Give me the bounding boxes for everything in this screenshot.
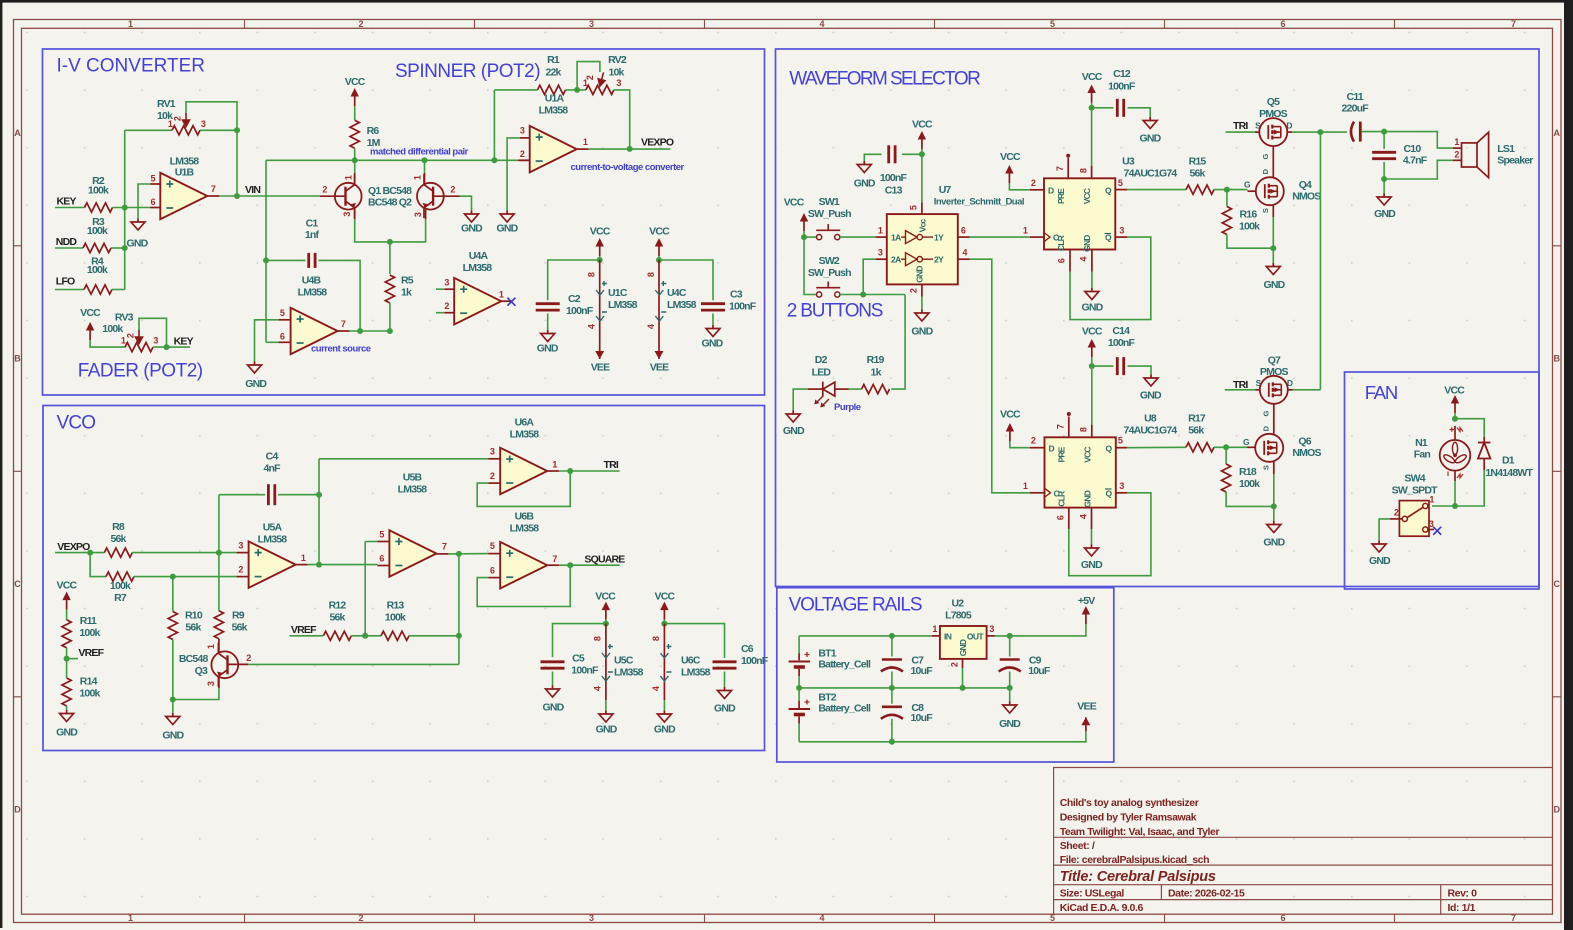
svg-text:KEY: KEY: [174, 335, 194, 347]
capacitor C14: [1116, 357, 1119, 375]
svg-text:1Y: 1Y: [934, 233, 944, 243]
wire U4A stubs: [436, 288, 444, 290]
svg-text:VOLTAGE RAILS: VOLTAGE RAILS: [789, 595, 922, 616]
svg-text:GND: GND: [543, 702, 565, 714]
junction C10: [1381, 129, 1387, 135]
op-amp U1A: [530, 126, 577, 173]
power VCC C5 rail: [602, 602, 610, 620]
svg-text:SW_Push: SW_Push: [808, 208, 851, 220]
wire to C3: [659, 260, 713, 300]
svg-text:C11: C11: [1347, 91, 1364, 103]
transistor Q1: [335, 183, 362, 210]
op-amp power unit U5C: [605, 624, 607, 700]
svg-text:6: 6: [1280, 19, 1285, 29]
svg-text:KiCad E.D.A. 9.0.6: KiCad E.D.A. 9.0.6: [1060, 902, 1144, 914]
wire VREF R12: [290, 635, 324, 637]
svg-text:LM358: LM358: [510, 429, 540, 441]
junction C13: [919, 151, 925, 157]
IC U7 Inverter_Schmitt_Dual: [887, 214, 958, 284]
svg-text:VCC: VCC: [590, 226, 611, 238]
svg-text:VEXPO: VEXPO: [57, 541, 90, 553]
junction U4C rail: [656, 257, 662, 263]
wire R8 to pin3: [132, 552, 236, 554]
wire VEXPO in: [55, 552, 104, 554]
junction Q4 source/R16: [1270, 245, 1276, 251]
svg-text:100nF: 100nF: [741, 655, 769, 667]
svg-text:LM358: LM358: [539, 105, 569, 117]
capacitor C13: [887, 145, 890, 163]
no-connect X U4A output: [507, 298, 515, 306]
wire C10 to speaker pin2: [1384, 160, 1453, 179]
junction fan bottom: [1452, 503, 1458, 509]
junction VEXPO feedback: [627, 146, 633, 152]
svg-text:D: D: [1049, 444, 1055, 454]
wire U6A output TRI: [559, 470, 620, 472]
op-amp power unit U4C: [658, 260, 660, 345]
junction KEY/R3: [122, 205, 128, 211]
svg-text:VCC: VCC: [784, 197, 805, 209]
wire R4 to junction column: [112, 289, 125, 291]
power VCC C12: [1087, 85, 1095, 103]
svg-text:D1: D1: [1502, 455, 1515, 467]
svg-text:100k: 100k: [87, 225, 108, 237]
wire TRI to Q7: [1225, 389, 1256, 391]
svg-text:LM358: LM358: [614, 667, 644, 679]
wire RV3 wiper loop: [139, 318, 167, 347]
svg-text:SW2: SW2: [819, 255, 840, 267]
svg-text:GND: GND: [714, 703, 736, 715]
junction U6B out: [567, 562, 573, 568]
svg-text:U4C: U4C: [667, 287, 687, 299]
power VCC R11: [62, 592, 70, 610]
wire emitters to R5: [389, 242, 391, 274]
wire VCC fan junction: [1454, 413, 1456, 419]
svg-text:2: 2: [358, 913, 363, 923]
junction C6 rail: [661, 621, 667, 627]
wire Q7 to Q6 drain: [1273, 404, 1275, 434]
svg-text:KEY: KEY: [57, 196, 77, 208]
wire VEXPO down to R7: [90, 553, 106, 577]
svg-text:VEE: VEE: [591, 362, 610, 374]
svg-text:SW_Push: SW_Push: [808, 267, 851, 279]
svg-text:GND: GND: [1082, 235, 1092, 252]
svg-text:current-to-voltage converter: current-to-voltage converter: [571, 162, 685, 173]
svg-text:GND: GND: [915, 266, 925, 283]
wire U1A pin2 stub: [494, 159, 518, 161]
capacitor C6: [713, 660, 737, 663]
svg-text:Designed by Tyler Ramsawak: Designed by Tyler Ramsawak: [1060, 812, 1197, 824]
wire to U6A pin3: [319, 458, 488, 460]
svg-text:100nF: 100nF: [1108, 337, 1136, 349]
svg-text:TRI: TRI: [604, 459, 619, 471]
wire Q2 collector: [424, 160, 426, 173]
wire U3 pin3 loop to pin6: [1070, 237, 1151, 320]
svg-text:LED: LED: [812, 366, 832, 378]
ground U1A pin3: [500, 211, 514, 223]
svg-text:GND: GND: [783, 425, 805, 437]
svg-text:U5C: U5C: [614, 655, 634, 667]
svg-text:GND: GND: [1263, 537, 1285, 549]
wire U1B output VIN: [219, 195, 319, 197]
wire VCC to U8 pin2: [1010, 441, 1030, 448]
transistor Q3: [218, 639, 220, 652]
svg-text:OUT: OUT: [967, 632, 985, 642]
wire U4B output: [350, 330, 390, 332]
svg-text:Q6: Q6: [1298, 436, 1311, 448]
resistor R15: [1186, 185, 1214, 194]
junction R5/output: [387, 328, 393, 334]
I-V CONVERTER section box: [43, 49, 765, 395]
resistor R19: [862, 385, 890, 394]
power VEE: [1081, 717, 1090, 731]
wire U7 pin6 to U3 pin1: [970, 236, 1030, 238]
regulator U2 L7805: [932, 635, 940, 637]
wire R9 column: [218, 553, 220, 611]
svg-text:GND: GND: [1081, 559, 1103, 571]
svg-text:D: D: [14, 805, 21, 815]
svg-text:VCC: VCC: [1000, 409, 1021, 421]
junction R1/RV2 wiper: [574, 87, 580, 93]
wire Q7 D to TRI bus: [1293, 389, 1321, 391]
junction C4 right: [316, 492, 322, 498]
svg-text:Sheet: /: Sheet: /: [1060, 840, 1095, 852]
svg-text:G: G: [1244, 180, 1251, 190]
svg-text:C1: C1: [306, 218, 319, 230]
junction R10/emitter: [170, 697, 176, 703]
svg-text:CLR: CLR: [1056, 235, 1066, 251]
resistor R5: [385, 275, 394, 303]
resistor R18: [1225, 447, 1227, 464]
svg-text:4nF: 4nF: [263, 463, 281, 475]
svg-text:LM358: LM358: [608, 299, 638, 311]
svg-text:D: D: [1554, 805, 1561, 815]
junction U6A out: [567, 468, 573, 474]
wire C14 junction to U8 pin8: [1091, 366, 1093, 425]
svg-text:RV2: RV2: [608, 54, 627, 66]
svg-text:U6B: U6B: [515, 511, 535, 523]
ground R14: [60, 710, 74, 722]
wire R18 bottom: [1226, 492, 1274, 506]
resistor R4: [84, 285, 112, 294]
svg-text:Q: Q: [1105, 488, 1112, 498]
junction C8 bottom: [889, 739, 895, 745]
resistor R16: [1226, 190, 1228, 207]
resistor R1: [538, 85, 566, 94]
wire C4 right: [278, 494, 319, 496]
svg-text:10uF: 10uF: [1028, 665, 1051, 677]
svg-text:56k: 56k: [185, 622, 201, 634]
svg-text:PRE: PRE: [1056, 188, 1066, 204]
svg-text:C6: C6: [741, 643, 754, 655]
svg-text:File: cerebralPalsipus.kicad_s: File: cerebralPalsipus.kicad_sch: [1060, 854, 1209, 866]
ground C5: [546, 686, 560, 698]
svg-text:R19: R19: [867, 354, 885, 366]
VEE arrow U4C: [655, 345, 664, 359]
svg-text:R15: R15: [1189, 156, 1207, 168]
svg-text:Size: USLegal: Size: USLegal: [1060, 888, 1125, 900]
screen edge left: [0, 0, 2, 928]
svg-text:Battery_Cell: Battery_Cell: [818, 703, 871, 715]
svg-text:TRI: TRI: [1233, 120, 1248, 132]
svg-text:74AUC1G74: 74AUC1G74: [1124, 167, 1178, 179]
wire C6 GND: [724, 672, 726, 688]
svg-text:LFO: LFO: [56, 276, 75, 288]
svg-text:VEE: VEE: [650, 362, 669, 374]
wire SW2 to U7 pin3: [863, 259, 875, 294]
svg-text:I-V CONVERTER: I-V CONVERTER: [57, 56, 206, 77]
wire U1A output VEXPO: [589, 148, 671, 150]
wire R1 feedback vertical: [493, 90, 495, 160]
ground U3: [1085, 288, 1099, 300]
svg-text:Q5: Q5: [1267, 96, 1280, 108]
capacitor C8 polarized: [891, 688, 893, 704]
wire pin5 vertical: [364, 542, 366, 636]
wire LED to GND: [793, 389, 808, 410]
svg-text:C4: C4: [266, 451, 279, 463]
wire R15 to gate node: [1214, 189, 1248, 191]
power VCC SW1: [800, 213, 808, 231]
svg-text:GND: GND: [702, 338, 724, 350]
svg-text:R5: R5: [401, 275, 414, 287]
svg-text:2: 2: [358, 19, 363, 29]
wire VCC to U3 pin2: [1009, 183, 1030, 190]
U3 pin7 no connect: [1067, 158, 1069, 178]
wire C13 right: [902, 153, 922, 155]
junction RV1 feedback: [234, 127, 240, 133]
svg-text:VCO: VCO: [57, 413, 96, 434]
svg-text:GND: GND: [958, 639, 968, 656]
svg-text:1A: 1A: [891, 233, 901, 243]
screen edge right: [1564, 0, 1573, 930]
junction RV3: [164, 344, 170, 350]
resistor R17: [1186, 443, 1214, 452]
wire VCC C5: [605, 620, 607, 624]
svg-text:100k: 100k: [87, 264, 108, 276]
svg-text:FADER (POT2): FADER (POT2): [78, 361, 203, 382]
resistor R8: [104, 548, 132, 557]
svg-text:G: G: [1243, 437, 1250, 447]
ground Q6: [1267, 521, 1281, 533]
battery BT1: [798, 636, 800, 654]
svg-text:R8: R8: [112, 521, 125, 533]
wire R1 left lead: [494, 89, 537, 91]
wire VCC C12 junction: [1091, 103, 1093, 108]
U8 pin5 stub: [1116, 447, 1127, 449]
svg-text:GND: GND: [1264, 279, 1286, 291]
svg-text:C3: C3: [730, 289, 743, 301]
wire R7 to pin2: [134, 576, 237, 578]
resistor R9: [214, 611, 223, 639]
U7 pin stubs: [876, 236, 887, 238]
svg-text:Inverter_Schmitt_Dual: Inverter_Schmitt_Dual: [934, 197, 1024, 208]
svg-text:R7: R7: [114, 592, 127, 604]
power VCC fader: [86, 322, 94, 340]
capacitor C5: [541, 660, 565, 663]
svg-text:Q4: Q4: [1299, 179, 1312, 191]
ground U7: [915, 310, 929, 322]
wire KEY input: [55, 207, 85, 209]
wire R13 right: [409, 635, 459, 637]
svg-text:100k: 100k: [88, 185, 109, 197]
svg-text:1nf: 1nf: [305, 229, 320, 241]
potentiometer RV1: [125, 129, 172, 131]
speaker LS1: [1453, 147, 1462, 149]
wire RV3 out: [153, 346, 190, 348]
svg-text:56k: 56k: [232, 622, 248, 634]
svg-text:BC548: BC548: [179, 653, 209, 665]
svg-text:4.7nF: 4.7nF: [1403, 155, 1428, 167]
wire C10 bottom: [1383, 162, 1385, 179]
svg-text:1k: 1k: [401, 287, 412, 299]
power +5V: [1082, 606, 1090, 624]
ground C13: [857, 161, 871, 173]
resistor R6: [350, 120, 359, 148]
wire to C5: [553, 624, 606, 657]
svg-text:U4B: U4B: [302, 275, 322, 287]
svg-text:C12: C12: [1113, 68, 1131, 80]
wire C11 right to speaker: [1362, 132, 1453, 149]
capacitor C2: [536, 302, 560, 305]
svg-text:6: 6: [1280, 913, 1285, 923]
svg-text:A: A: [14, 128, 21, 138]
svg-text:GND: GND: [999, 718, 1021, 730]
wire U5B output to U6B: [448, 553, 488, 555]
wire to SW4 pin1: [1432, 505, 1455, 507]
wire R6 to node: [354, 148, 356, 160]
junction VEXPO: [87, 550, 93, 556]
title block border: [1054, 768, 1553, 915]
junction R12/R13 pin5: [362, 633, 368, 639]
WAVEFORM SELECTOR section box: [776, 49, 1540, 587]
wire C12 to GND: [1128, 108, 1151, 117]
svg-text:VIN: VIN: [245, 184, 260, 196]
svg-text:U1C: U1C: [608, 287, 628, 299]
junction fan top: [1452, 416, 1458, 422]
wire U4B pin5 to GND: [255, 320, 279, 362]
junction C5 rail: [603, 621, 609, 627]
junction Q2 collector: [422, 157, 428, 163]
svg-text:BC548 Q2: BC548 Q2: [368, 197, 412, 209]
power VCC C2 rail: [596, 238, 604, 256]
capacitor C3: [701, 302, 725, 305]
capacitor C10: [1372, 151, 1396, 154]
U3 pin5 stub: [1115, 189, 1127, 191]
wire U1B pin5 to GND: [138, 184, 150, 219]
wire output feedback vertical: [458, 554, 460, 665]
wire U6A feedback: [477, 471, 570, 506]
svg-text:U5B: U5B: [403, 472, 423, 484]
svg-text:R12: R12: [329, 600, 347, 612]
junction U2 pin2: [960, 685, 966, 691]
svg-text:VCC: VCC: [1082, 188, 1092, 204]
junction R17/R18: [1223, 444, 1229, 450]
svg-text:GND: GND: [911, 326, 933, 338]
wire U8 pin5 to R17: [1127, 446, 1186, 448]
junction R10 top: [170, 574, 176, 580]
svg-text:220uF: 220uF: [1342, 103, 1370, 115]
svg-text:U6A: U6A: [515, 417, 535, 429]
op-amp U4A: [454, 278, 501, 325]
wire to C6: [664, 624, 724, 658]
svg-text:100k: 100k: [385, 612, 406, 624]
svg-text:56k: 56k: [1189, 167, 1205, 179]
svg-text:U7: U7: [939, 184, 952, 196]
wire VCC C6: [663, 620, 665, 624]
VCO section box: [43, 406, 765, 751]
wire R17 to gate node: [1214, 446, 1247, 448]
power VCC U3 pin2: [1005, 165, 1013, 183]
svg-text:Q1 BC548: Q1 BC548: [368, 185, 412, 197]
FAN section box: [1345, 372, 1540, 589]
svg-text:R10: R10: [185, 610, 203, 622]
svg-text:IN: IN: [944, 632, 952, 642]
wire U2 out rail: [995, 624, 1086, 636]
wire RV1 wiper loop: [186, 102, 237, 131]
wire R16 bottom: [1227, 235, 1273, 249]
wire R2 to junction: [113, 207, 151, 209]
IC U8 74AUC1G74: [1045, 437, 1116, 507]
svg-text:current source: current source: [311, 344, 371, 355]
ground Q4: [1266, 263, 1280, 275]
wire C12 junction to U3 pin8: [1091, 108, 1093, 166]
svg-text:R6: R6: [367, 125, 380, 137]
svg-text:LS1: LS1: [1497, 143, 1515, 155]
svg-text:D: D: [1048, 185, 1054, 195]
svg-text:5: 5: [1050, 913, 1055, 923]
U8 pin7 no connect: [1068, 417, 1070, 438]
svg-text:GND: GND: [56, 727, 78, 739]
svg-text:56k: 56k: [329, 612, 345, 624]
junction C9 top: [1007, 633, 1013, 639]
junction C2 rail: [597, 257, 603, 263]
junction C1 left: [263, 257, 269, 263]
wire to C14: [1092, 365, 1114, 367]
svg-text:Q: Q: [1105, 233, 1112, 243]
wire C4 node vertical: [318, 459, 320, 565]
svg-text:2 BUTTONS: 2 BUTTONS: [787, 301, 883, 322]
wire input summing column: [124, 130, 126, 289]
wire C4 left: [219, 494, 265, 496]
potentiometer RV2: [586, 85, 614, 94]
ground C3: [706, 325, 720, 337]
svg-text:C: C: [14, 579, 21, 589]
svg-text:10uF: 10uF: [911, 712, 934, 724]
svg-text:100k: 100k: [110, 580, 131, 592]
svg-text:GND: GND: [596, 724, 618, 736]
ground C10: [1377, 194, 1391, 206]
wire U6B feedback: [477, 565, 570, 606]
svg-text:R13: R13: [387, 600, 405, 612]
svg-text:GND: GND: [1374, 208, 1396, 220]
svg-text:U1A: U1A: [545, 93, 565, 105]
ground U6C: [657, 711, 671, 723]
svg-text:VCC: VCC: [1444, 384, 1465, 396]
wire TRI bus vertical: [1319, 132, 1321, 390]
wire RV2 wiper loop: [577, 62, 600, 90]
wire R1 to RV2: [566, 89, 586, 91]
resistor R2: [85, 203, 113, 212]
junction C14: [1089, 363, 1095, 369]
wire SW4 common to GND: [1379, 519, 1390, 541]
wire R14 to GND: [66, 706, 68, 710]
svg-text:NDD: NDD: [56, 236, 78, 248]
wire NDD input: [55, 247, 83, 249]
screen edge top: [0, 0, 1573, 3]
svg-text:SW4: SW4: [1404, 473, 1425, 485]
svg-text:56k: 56k: [110, 533, 126, 545]
wire C5 GND: [552, 672, 554, 686]
svg-text:NMOS: NMOS: [1292, 191, 1321, 203]
